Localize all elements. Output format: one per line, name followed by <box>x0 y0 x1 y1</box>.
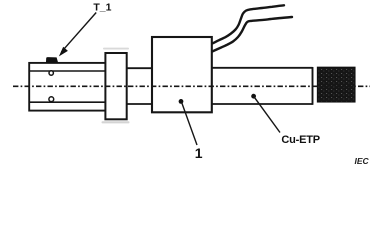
svg-text:IEC: IEC <box>355 156 370 166</box>
barrel bottom line <box>127 103 152 105</box>
top hole circle <box>49 71 53 75</box>
left tube body outline <box>29 63 105 111</box>
barrel top line <box>127 67 152 69</box>
rod bottom line <box>212 103 313 105</box>
lower cable curve <box>212 17 292 52</box>
svg-text:Cu-ETP: Cu-ETP <box>281 134 320 146</box>
leader dot on block 1 <box>179 99 184 104</box>
left tube inner wall top line <box>29 70 105 72</box>
rod top line <box>212 67 313 69</box>
svg-text:T_1: T_1 <box>93 2 111 14</box>
leader line to Cu-ETP <box>254 96 280 132</box>
scan smudge above flange <box>103 48 129 50</box>
svg-text:1: 1 <box>195 145 203 161</box>
bottom hole circle <box>49 97 54 102</box>
upper cable curve <box>212 5 284 43</box>
T_1 leader line <box>62 13 97 52</box>
big central block (item 1) <box>152 37 212 112</box>
rod end vertical line <box>312 67 314 105</box>
T_1 arrowhead <box>59 47 68 57</box>
leader dot on rod <box>251 94 256 99</box>
leader line to label 1 <box>182 102 198 145</box>
flange rectangle <box>105 53 126 119</box>
knurled black end block <box>318 67 355 102</box>
scan smudge below flange <box>102 121 130 123</box>
centerline (dash-dot axis) <box>13 85 370 87</box>
black tab (thermocouple attachment) <box>46 57 58 63</box>
left tube inner wall bottom line <box>29 101 105 103</box>
